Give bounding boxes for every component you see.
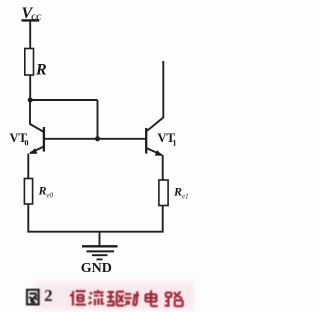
power terminal bar Vcc bbox=[22, 19, 40, 21]
base wire VT0 to VT1 bbox=[44, 138, 146, 140]
transistor VT1 bbox=[146, 118, 163, 156]
char 恒 bbox=[71, 291, 86, 306]
bottom rail wire bbox=[28, 231, 164, 233]
resistor Re0 bbox=[24, 179, 32, 205]
svg-text:GND: GND bbox=[81, 261, 112, 276]
ground stub wire bbox=[99, 232, 101, 246]
char 动 bbox=[124, 291, 139, 305]
svg-text:e1: e1 bbox=[182, 193, 189, 201]
svg-text:e0: e0 bbox=[47, 192, 54, 200]
char 驱 bbox=[107, 291, 125, 305]
transistor VT0 bbox=[30, 124, 44, 154]
wire R to node A bbox=[29, 75, 31, 101]
wire VT1 collector output (up) bbox=[162, 61, 164, 118]
label VT1 bbox=[158, 131, 177, 148]
label Vcc bbox=[22, 5, 43, 22]
svg-text:R: R bbox=[38, 184, 47, 198]
caption title 恒流驱动电路 (red) bbox=[71, 289, 183, 307]
wire Re1 to bottom rail bbox=[162, 206, 164, 233]
wire Vcc bar to resistor R bbox=[29, 22, 31, 50]
label Re1 bbox=[173, 185, 189, 201]
wire VT1 emitter to Re1 bbox=[162, 155, 164, 181]
char 电 bbox=[145, 290, 158, 306]
node A junction dot bbox=[28, 98, 33, 103]
svg-text:1: 1 bbox=[173, 139, 177, 148]
label Re0 bbox=[38, 184, 54, 200]
wire VT0 emitter to Re0 bbox=[27, 154, 29, 180]
ground symbol bbox=[82, 246, 118, 259]
wire node A to base-drop (horizontal) bbox=[30, 99, 97, 101]
caption background halo bbox=[34, 282, 194, 310]
wire base-drop (vertical) bbox=[97, 100, 99, 139]
char 流 bbox=[89, 290, 105, 306]
svg-text:R: R bbox=[35, 62, 47, 79]
wire node A down to VT0 collector bbox=[29, 100, 31, 125]
caption figure number 图 2 bbox=[27, 290, 39, 305]
resistor Re1 bbox=[159, 180, 168, 206]
resistor R bbox=[25, 49, 34, 76]
char 路 bbox=[165, 291, 183, 306]
svg-text:0: 0 bbox=[25, 138, 29, 147]
node B junction dot on base wire bbox=[95, 136, 100, 141]
svg-text:2: 2 bbox=[44, 286, 53, 305]
label VT0 bbox=[10, 131, 29, 147]
wire Re0 to bottom rail bbox=[27, 204, 29, 233]
svg-text:R: R bbox=[173, 185, 182, 199]
